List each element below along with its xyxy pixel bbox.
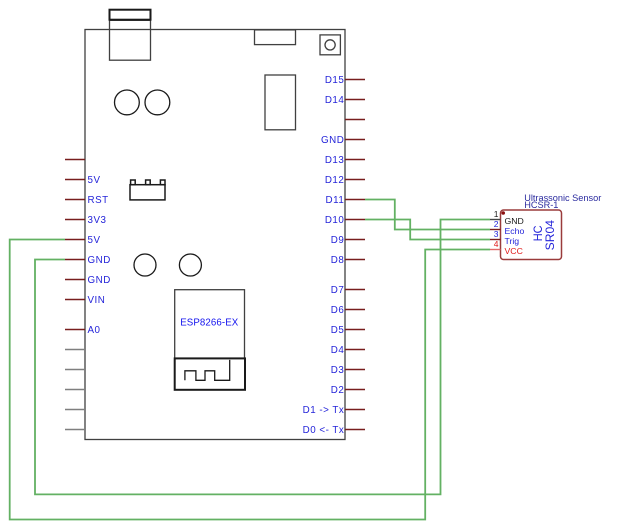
svg-text:D0 <- Tx: D0 <- Tx bbox=[303, 425, 345, 436]
pin GND (right) bbox=[321, 135, 365, 146]
svg-text:5V: 5V bbox=[88, 235, 101, 246]
svg-text:D3: D3 bbox=[331, 365, 345, 376]
svg-text:1: 1 bbox=[494, 209, 499, 219]
power jack bbox=[255, 30, 296, 45]
svg-text:HCSR-1: HCSR-1 bbox=[524, 200, 558, 210]
sensor pin 4 VCC bbox=[490, 239, 523, 256]
USB connector body bbox=[110, 20, 151, 60]
svg-text:5V: 5V bbox=[88, 175, 101, 186]
shield/module rectangle bbox=[265, 75, 296, 130]
svg-text:D12: D12 bbox=[325, 175, 344, 186]
pin D0 <- Tx bbox=[303, 425, 365, 436]
crystal oscillator bbox=[175, 358, 245, 389]
wire D11 to sensor Echo bbox=[365, 200, 490, 230]
svg-text:RST: RST bbox=[88, 195, 109, 206]
pin D10 bbox=[325, 215, 365, 226]
svg-text:D4: D4 bbox=[331, 345, 345, 356]
pin D4 bbox=[331, 345, 365, 356]
svg-text:D9: D9 bbox=[331, 235, 345, 246]
svg-text:D11: D11 bbox=[326, 195, 345, 206]
sensor pin 1 GND bbox=[490, 209, 524, 226]
svg-text:A0: A0 bbox=[88, 325, 101, 336]
pin D5 bbox=[331, 325, 365, 336]
reset button bbox=[320, 35, 340, 55]
svg-text:3: 3 bbox=[494, 229, 499, 239]
left gray pin 4 bbox=[65, 409, 85, 411]
pin D8 bbox=[331, 255, 365, 266]
svg-text:GND: GND bbox=[505, 216, 524, 226]
pin A0 bbox=[65, 325, 101, 336]
pin D1 -> Tx bbox=[303, 405, 365, 416]
mounting hole top-right bbox=[145, 90, 170, 115]
svg-text:GND: GND bbox=[321, 135, 344, 146]
left gray pin 3 bbox=[65, 389, 85, 391]
left gray pin 5 bbox=[65, 429, 85, 431]
svg-text:D14: D14 bbox=[325, 95, 345, 106]
svg-text:Echo: Echo bbox=[505, 226, 525, 236]
wire D10 to sensor Trig bbox=[365, 220, 490, 240]
sensor pin 2 Echo bbox=[490, 219, 524, 236]
3-prong connector bbox=[130, 180, 165, 200]
sensor pin 3 Trig bbox=[490, 229, 519, 246]
pin 5V (left, wired) bbox=[65, 235, 100, 246]
ultrasonic sensor U2 HCSR-1 body bbox=[501, 210, 562, 260]
pin D14 bbox=[325, 95, 365, 106]
pin D9 bbox=[331, 235, 365, 246]
wire GND to sensor GND bbox=[35, 220, 490, 495]
svg-text:3V3: 3V3 bbox=[88, 215, 107, 226]
USB connector plug bbox=[110, 10, 151, 20]
sensor part name HC SR04 (rotated) bbox=[531, 220, 557, 251]
pin D6 bbox=[331, 305, 365, 316]
wire 5V to sensor VCC bbox=[10, 240, 490, 520]
pin VIN bbox=[65, 295, 105, 306]
pin 5V (left top) bbox=[65, 175, 100, 186]
left gray pin 2 bbox=[65, 369, 85, 371]
pin D3 bbox=[331, 365, 365, 376]
left pin (unlabeled) bbox=[65, 159, 85, 161]
svg-text:Trig: Trig bbox=[505, 236, 520, 246]
svg-text:4: 4 bbox=[494, 239, 499, 249]
svg-text:D6: D6 bbox=[331, 305, 345, 316]
svg-text:D5: D5 bbox=[331, 325, 345, 336]
svg-text:D13: D13 bbox=[325, 155, 345, 166]
board U1 ESP8266 module outline bbox=[85, 30, 345, 440]
svg-text:ESP8266-EX: ESP8266-EX bbox=[180, 317, 239, 328]
svg-text:D15: D15 bbox=[325, 75, 345, 86]
mounting hole mid-right bbox=[179, 254, 201, 276]
left gray pin 1 bbox=[65, 349, 85, 351]
mounting hole top-left bbox=[115, 90, 140, 115]
svg-text:2: 2 bbox=[494, 219, 499, 229]
pin GND (left) bbox=[65, 275, 111, 286]
svg-text:GND: GND bbox=[88, 255, 111, 266]
pin GND (left, wired) bbox=[65, 255, 111, 266]
svg-text:GND: GND bbox=[88, 275, 111, 286]
svg-text:D1 -> Tx: D1 -> Tx bbox=[303, 405, 345, 416]
sensor pin-1 marker dot bbox=[501, 211, 505, 215]
pin D2 bbox=[331, 385, 365, 396]
pin D11 bbox=[326, 195, 365, 206]
right pin (unlabeled) bbox=[345, 119, 365, 121]
pin D13 bbox=[325, 155, 365, 166]
pin RST bbox=[65, 195, 109, 206]
svg-text:D10: D10 bbox=[325, 215, 345, 226]
pin D7 bbox=[331, 285, 365, 296]
pin 3V3 bbox=[65, 215, 106, 226]
svg-text:D7: D7 bbox=[331, 285, 345, 296]
mounting hole mid-left bbox=[134, 254, 156, 276]
svg-text:VIN: VIN bbox=[88, 295, 106, 306]
chip ESP8266-EX bbox=[175, 290, 245, 359]
svg-text:VCC: VCC bbox=[505, 246, 523, 256]
pin D12 bbox=[325, 175, 365, 186]
svg-text:D2: D2 bbox=[331, 385, 345, 396]
svg-text:D8: D8 bbox=[331, 255, 345, 266]
sensor title label bbox=[524, 193, 601, 210]
pin D15 bbox=[325, 75, 365, 86]
svg-text:SR04: SR04 bbox=[543, 220, 557, 251]
